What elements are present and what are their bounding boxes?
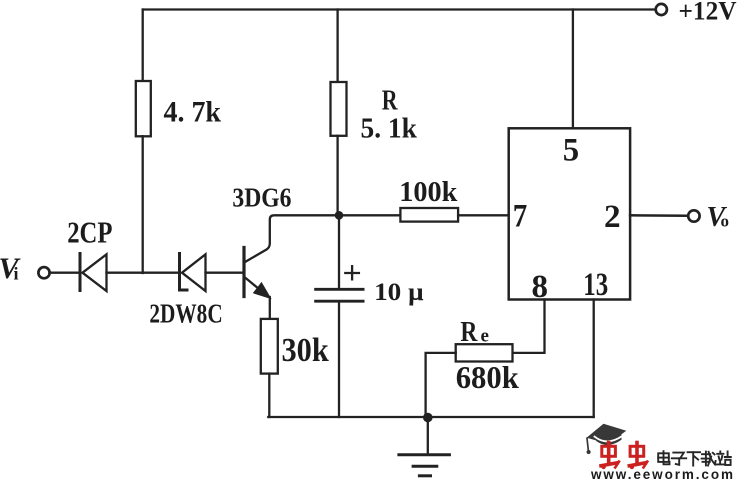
wire bottom ground rail (268, 416, 593, 418)
wire 100k to pin 7 (458, 214, 509, 216)
svg-text:2: 2 (604, 199, 621, 235)
watermark chongchong character 2 (629, 443, 647, 470)
svg-text:7: 7 (513, 199, 528, 235)
capacitor C1 top plate (316, 288, 364, 291)
wire 30k bottom to ground rail (268, 374, 270, 417)
svg-text:3DG6: 3DG6 (232, 182, 291, 212)
svg-text:10 μ: 10 μ (374, 277, 424, 306)
capacitor C1 bottom plate (316, 300, 364, 303)
resistor R3 30k (261, 319, 278, 374)
diode D1 2CP cathode bar (79, 254, 82, 291)
ground symbol (399, 455, 450, 476)
diode D1 2CP triangle (83, 254, 107, 291)
svg-text:13: 13 (583, 267, 608, 303)
wire pin 8 down (513, 300, 545, 353)
terminal Vo (688, 210, 699, 221)
transistor Q1 emitter arrow (255, 284, 270, 298)
node A junction dot (335, 211, 344, 220)
wire emitter to 30k (269, 297, 271, 319)
svg-text:5: 5 (563, 133, 579, 169)
wire top +12V rail (143, 8, 655, 10)
svg-text:o: o (721, 212, 730, 231)
terminal +12V (656, 4, 667, 15)
wire left branch from rail to R1 top (142, 10, 144, 82)
resistor Re 680k (456, 344, 513, 361)
wire Re left to junction (426, 353, 456, 417)
op-amp IC U1 box (509, 128, 630, 299)
transistor Q1 base bar (242, 248, 245, 297)
wire capacitor to ground rail (338, 301, 340, 417)
wire pin 13 down (593, 300, 595, 418)
wire junction to ground (427, 418, 429, 454)
wire node A down to capacitor (338, 215, 340, 289)
wire R bottom to node A (336, 136, 338, 216)
wire node A to resistor 100k (339, 214, 400, 216)
svg-text:e: e (481, 325, 489, 346)
watermark graduation cap (587, 424, 627, 454)
svg-text:2CP: 2CP (67, 214, 112, 249)
wire R1 bottom to diode junction (142, 136, 144, 273)
wire pin 2 to output terminal (630, 214, 686, 217)
svg-text:5. 1k: 5. 1k (361, 113, 418, 144)
diode D2 2DW8C triangle (182, 254, 206, 291)
resistor R2 100k (400, 208, 458, 222)
wire rail to IC pin 5 (572, 10, 574, 129)
terminal Vi input (38, 267, 49, 278)
svg-text:i: i (14, 264, 19, 284)
svg-text:100k: 100k (399, 177, 457, 208)
wire D1 to D2 (107, 272, 178, 274)
diode D2 2DW8C zener bar (180, 254, 188, 291)
resistor R 5.1k (331, 82, 347, 136)
svg-text:30k: 30k (282, 332, 329, 369)
svg-text:680k: 680k (456, 359, 519, 395)
junction dot ground node (423, 413, 433, 423)
svg-text:www.eeworm.com: www.eeworm.com (590, 467, 735, 482)
wire D2 to transistor base (206, 272, 243, 274)
wire Vi to diode D1 (50, 272, 80, 274)
wire R 5.1k top branch (336, 10, 338, 83)
transistor Q1 collector (245, 215, 339, 262)
svg-text:2DW8C: 2DW8C (149, 299, 222, 329)
svg-text:R: R (460, 316, 478, 348)
capacitor C1 plus sign (345, 266, 359, 279)
svg-text:R: R (382, 85, 398, 116)
svg-text:4. 7k: 4. 7k (164, 96, 222, 128)
watermark text dianzi xiazaizhan (658, 451, 731, 465)
resistor R1 4.7k (136, 81, 151, 136)
watermark chongchong character 1 (601, 443, 619, 470)
transistor Q1 emitter (245, 278, 262, 292)
svg-text:+12V: +12V (679, 0, 737, 26)
